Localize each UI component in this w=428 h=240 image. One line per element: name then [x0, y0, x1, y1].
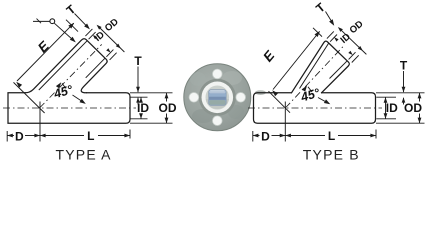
E dim extension line TYPE B	[269, 91, 291, 113]
arrow: ID up	[139, 97, 143, 103]
svg-text:TYPE A: TYPE A	[56, 147, 112, 163]
shadow ring around raised face	[199, 79, 236, 116]
arrow: balloon leader arrow	[70, 37, 76, 43]
OD bottom extension TYPE B	[376, 122, 425, 124]
balloon ref line TYPE A	[33, 20, 50, 22]
E dim extension line (perp from vertex) TYPE A	[14, 82, 45, 113]
T leader TYPE A	[137, 67, 139, 93]
arrow: branch OD lower arrow	[116, 44, 121, 49]
T leader TYPE B	[403, 71, 405, 92]
D extension line TYPE B	[284, 102, 286, 142]
center bore	[209, 90, 227, 106]
OD top extension TYPE B	[376, 92, 425, 94]
branch T leader TYPE B	[326, 12, 334, 25]
branch left bore extension TYPE A	[89, 32, 96, 39]
arrow: OD dim arrow up TYPE B	[418, 93, 422, 99]
arrow: L left arrow	[40, 134, 46, 138]
arrow: 45deg upper arrow	[56, 82, 61, 88]
branch left wall extension TYPE A	[85, 29, 92, 36]
arrow: OD up	[165, 93, 169, 99]
gray smudge at TYPE B left corner	[255, 90, 266, 95]
svg-text:ID: ID	[386, 101, 398, 115]
arrow: L dim arrow right TYPE B	[370, 134, 376, 138]
svg-text:D: D	[261, 129, 270, 143]
arrow: branch ID arrow upper	[93, 35, 97, 39]
arrow: 45 deg arrow upper TYPE B	[302, 86, 307, 92]
45 deg leader seg2 TYPE B	[318, 98, 329, 104]
balloon tick TYPE A	[37, 19, 42, 24]
ID dimension line TYPE A	[140, 97, 142, 101]
ID dimension line TYPE B	[385, 97, 387, 119]
balloon leader TYPE A	[54, 23, 74, 41]
bolt hole top	[213, 69, 223, 79]
arrow: branch T arrow TYPE B	[329, 19, 334, 25]
L dimension line TYPE A	[40, 135, 84, 137]
arrow: branch ID arrow upper TYPE B	[334, 37, 338, 41]
face plane extension TYPE B	[313, 28, 322, 37]
svg-text:OD: OD	[404, 101, 422, 115]
D extension line (vertex vertical) TYPE A	[39, 102, 41, 142]
bolt hole bottom	[213, 116, 223, 126]
branch right bore extension TYPE A	[106, 50, 113, 57]
arrow: L right arrow	[124, 134, 130, 138]
flange outer face	[184, 64, 251, 131]
arrow: E lower, pointing down-left (225deg)	[16, 82, 22, 88]
flange photo	[184, 64, 251, 131]
bolt hole left	[189, 93, 199, 103]
L dimension line TYPE B	[285, 135, 325, 137]
right end extension TYPE A	[129, 130, 131, 139]
arrow: T leader down arrow	[136, 87, 140, 93]
right end extension TYPE B	[375, 130, 377, 139]
ID top extension TYPE B	[376, 96, 396, 98]
branch bore line left TYPE A	[39, 41, 87, 90]
OD top extension TYPE A	[130, 92, 173, 94]
run pipe body TYPE B	[254, 93, 376, 123]
run centerline TYPE A	[3, 107, 136, 109]
arrow: branch OD arrow upper TYPE B	[338, 27, 343, 32]
svg-text:L: L	[87, 129, 94, 143]
arrow: branch T arrow	[84, 24, 90, 30]
branch bore line right TYPE B	[330, 61, 348, 79]
branch left bore extension TYPE B	[330, 35, 337, 42]
45 deg leader seg1 TYPE A	[62, 83, 66, 88]
D dimension line TYPE A	[7, 135, 14, 137]
raised face white ring	[202, 82, 234, 114]
E dimension line TYPE B	[273, 32, 320, 90]
ID top extension TYPE A	[130, 96, 147, 98]
branch right bore extension TYPE B	[349, 52, 356, 59]
45 deg leader seg1 TYPE B	[308, 87, 312, 92]
arrow: ID dim arrow down TYPE B	[384, 113, 388, 119]
arrow: branch ID arrow lower TYPE B	[348, 51, 352, 55]
arrow: T opposing up arrow	[136, 97, 140, 102]
arrow: branch OD upper arrow	[97, 25, 102, 30]
arrow: 45deg lower arrow	[80, 99, 86, 104]
arrow: T leader arrow TYPE B	[402, 87, 406, 93]
branch OD dim line TYPE B	[339, 28, 366, 54]
svg-text:T: T	[134, 54, 142, 68]
branch centerline TYPE B	[285, 47, 343, 108]
flange mottling	[192, 109, 214, 123]
branch right wall extension TYPE A	[110, 53, 117, 60]
D dimension line TYPE B	[253, 135, 260, 137]
45 deg leader seg2 TYPE A	[73, 95, 85, 103]
run centerline TYPE B	[248, 107, 382, 109]
OD dimension line TYPE A	[166, 93, 168, 102]
branch OD dim line TYPE A	[98, 26, 125, 52]
arrow: D dim arrow left TYPE B	[253, 134, 259, 138]
svg-text:T: T	[400, 59, 408, 73]
arrow: T inner arrow TYPE B	[402, 97, 406, 102]
branch bore line left TYPE B	[300, 43, 329, 88]
arrow: OD down	[165, 118, 169, 124]
arrow: 45 deg arrow lower TYPE B	[324, 99, 330, 104]
svg-text:L: L	[328, 129, 335, 143]
branch outlet TYPE A	[25, 39, 107, 93]
T inner arrow tail TYPE A	[137, 98, 139, 105]
raised face inner disc	[206, 86, 230, 110]
arrow: branch ID arrow lower	[106, 48, 110, 52]
arrow: E upper, pointing up-right	[68, 23, 74, 29]
branch bore line right TYPE A	[86, 58, 105, 78]
OD dimension line TYPE B	[419, 93, 421, 102]
bolt hole right	[236, 93, 246, 103]
branch centerline TYPE A	[40, 44, 102, 108]
branch right wall extension TYPE B	[352, 55, 359, 62]
branch left wall extension TYPE B	[327, 31, 334, 38]
T inner arrow tail TYPE B	[403, 98, 405, 105]
arrow: D left arrow <-	[7, 134, 13, 138]
arrow: ID dim arrow up TYPE B	[384, 97, 388, 103]
run pipe body TYPE A	[8, 93, 130, 123]
arrow: L dim arrow left TYPE B	[285, 134, 291, 138]
arrow: E dim arrow upper TYPE B	[315, 31, 321, 37]
branch T leader TYPE A	[75, 14, 89, 29]
arrow: D dim arrow right TYPE B	[280, 134, 286, 138]
svg-text:ID: ID	[137, 101, 149, 115]
arrow: ID down	[139, 113, 143, 119]
arrow: branch OD arrow lower TYPE B	[358, 46, 363, 51]
svg-text:OD: OD	[159, 101, 177, 115]
face plane extension TYPE A	[66, 20, 78, 32]
ID bottom extension TYPE A	[130, 118, 147, 120]
arrow: D right arrow ->	[34, 134, 40, 138]
left end extension TYPE A	[6, 131, 8, 142]
arrow: E dim arrow lower TYPE B	[272, 90, 278, 96]
ID bottom extension TYPE B	[376, 118, 396, 120]
svg-text:TYPE B: TYPE B	[303, 147, 360, 163]
OD bottom extension TYPE A	[130, 122, 173, 124]
branch outlet TYPE B	[292, 41, 350, 93]
balloon circle TYPE A	[50, 19, 55, 24]
E dimension line TYPE A	[17, 23, 74, 81]
svg-text:D: D	[15, 129, 24, 143]
arrow: OD dim arrow down TYPE B	[418, 118, 422, 124]
left end extension TYPE B	[252, 131, 254, 142]
